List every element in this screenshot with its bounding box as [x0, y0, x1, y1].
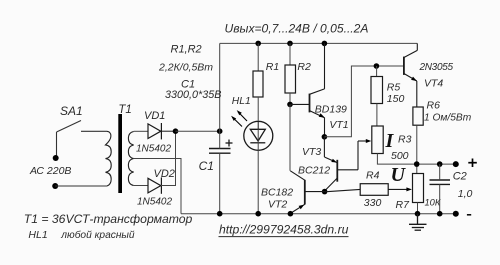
junction bottom C2 — [437, 211, 443, 217]
svg-text:150: 150 — [387, 93, 405, 105]
wire secondary bottom to VD2 — [134, 185, 148, 187]
svg-text:10К: 10К — [425, 197, 441, 207]
junction bottom ground — [415, 211, 421, 217]
label minus — [467, 214, 471, 216]
wire output top line — [417, 163, 456, 165]
svg-text:VD1: VD1 — [144, 110, 165, 122]
ground — [409, 214, 427, 231]
svg-text:3300,0*35В: 3300,0*35В — [165, 89, 221, 101]
svg-text:BD139: BD139 — [315, 104, 347, 116]
junction bottom HL1 — [255, 211, 261, 217]
svg-text:VT2: VT2 — [268, 198, 287, 210]
svg-text:VT3: VT3 — [302, 146, 321, 158]
junction VT4 base / R5 — [374, 63, 380, 69]
wire top rail — [220, 42, 418, 44]
switch SA1 — [57, 121, 108, 159]
wire secondary top to VD1 — [134, 130, 148, 132]
svg-text:АС 220В: АС 220В — [29, 165, 71, 177]
diode VD2 — [148, 177, 161, 193]
svg-text:1 Ом/5Вт: 1 Ом/5Вт — [424, 112, 472, 123]
svg-text:SA1: SA1 — [60, 104, 83, 118]
svg-text:BC212: BC212 — [298, 165, 330, 177]
svg-text:R6: R6 — [427, 100, 441, 112]
svg-text:http://299792458.3dn.ru: http://299792458.3dn.ru — [219, 222, 349, 236]
transformer T1 secondary winding — [128, 132, 133, 186]
wire secondary center tap — [134, 159, 181, 214]
junction bottom C1 — [217, 211, 223, 217]
potentiometer R3 — [372, 126, 417, 164]
junction top rail VT1 collector — [322, 41, 328, 47]
resistor R1 — [253, 43, 263, 120]
capacitor C2 — [430, 164, 451, 214]
svg-text:HL1: HL1 — [232, 96, 251, 107]
wire AC bottom to primary — [55, 185, 107, 187]
svg-text:2N3055: 2N3055 — [419, 62, 454, 73]
svg-text:R2: R2 — [297, 61, 311, 73]
resistor R2 — [285, 43, 296, 104]
svg-text:R3: R3 — [398, 134, 412, 146]
junction VT3 collector / VT2 base node — [322, 189, 328, 195]
transistor VT1 BD139 — [290, 43, 325, 136]
svg-text:R4: R4 — [366, 169, 380, 181]
label plus — [468, 159, 477, 168]
transistor VT4 2N3055 — [404, 43, 417, 107]
wire emitter node to VT4 base riser — [324, 66, 404, 137]
svg-text:BC182: BC182 — [261, 187, 293, 199]
AC input terminal top — [53, 155, 59, 161]
junction C2 top — [437, 161, 443, 167]
resistor R4 — [325, 184, 412, 196]
svg-text:2,2К/0,5Вт: 2,2К/0,5Вт — [158, 62, 213, 74]
svg-text:330: 330 — [364, 197, 382, 209]
svg-text:R1: R1 — [266, 61, 279, 73]
transistor VT3 BC212 — [324, 137, 371, 191]
capacitor C1 — [209, 149, 231, 154]
svg-text:1N5402: 1N5402 — [136, 143, 171, 154]
svg-text:U: U — [391, 164, 407, 186]
svg-text:С1: С1 — [199, 159, 214, 173]
svg-text:R5: R5 — [387, 81, 401, 93]
junction bottom VT2 emitter — [288, 211, 294, 217]
wire rectifier node to C1 node — [176, 130, 220, 132]
svg-text:1N5402: 1N5402 — [137, 196, 172, 207]
svg-text:R1,R2: R1,R2 — [171, 44, 202, 56]
wire C1 node riser to top rail — [219, 43, 221, 131]
junction R2 bottom / VT1 base — [287, 102, 293, 108]
junction C1 node — [217, 128, 223, 134]
svg-text:1,0: 1,0 — [458, 188, 473, 200]
svg-text:VT1: VT1 — [329, 119, 348, 131]
svg-text:C2: C2 — [453, 171, 467, 183]
svg-text:500: 500 — [391, 150, 409, 162]
LED HL1 — [244, 121, 273, 214]
terminal plus dot — [453, 161, 459, 167]
resistor R5 — [371, 66, 383, 126]
svg-text:Uвых=0,7...24В / 0,05...2А: Uвых=0,7...24В / 0,05...2А — [225, 22, 369, 36]
junction rectifier node — [173, 128, 179, 134]
wire bottom rail — [181, 213, 456, 215]
svg-text:HL1: HL1 — [28, 229, 47, 241]
capacitor C1 plus sign — [226, 140, 233, 147]
svg-text:любой красный: любой красный — [60, 229, 135, 241]
svg-text:VD2: VD2 — [154, 168, 175, 180]
transistor VT2 BC182 — [290, 171, 324, 214]
svg-text:I: I — [385, 130, 395, 152]
transformer T1 core — [118, 114, 122, 193]
svg-text:VT4: VT4 — [424, 78, 443, 90]
terminal minus dot — [453, 211, 459, 217]
svg-text:R7: R7 — [396, 199, 411, 211]
resistor R6 — [413, 107, 423, 164]
junction top rail R2 — [287, 41, 293, 47]
junction R6/R7 output — [414, 161, 420, 167]
svg-text:Т1 = 36VСТ-трансформатор: Т1 = 36VСТ-трансформатор — [24, 212, 193, 226]
wire R2 junction down to VT2 collector — [289, 104, 291, 170]
junction top rail R1 — [255, 41, 261, 47]
potentiometer R7 — [413, 164, 424, 214]
diode VD1 — [148, 123, 176, 139]
junction VT1 emitter node — [322, 134, 328, 140]
AC input terminal bottom — [52, 183, 58, 189]
wire C1 leads — [219, 131, 221, 214]
wire VD2 cathode up to rectifier node — [161, 131, 176, 185]
transformer T1 primary winding — [106, 131, 112, 186]
LED HL1 arrows — [231, 110, 247, 126]
